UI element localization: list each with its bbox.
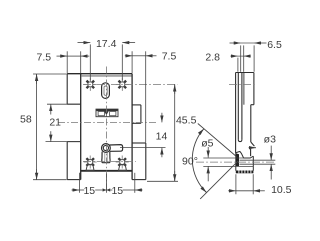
dimension 15 / 15 <box>72 173 143 193</box>
side right edge upper <box>253 73 255 105</box>
svg-text:14: 14 <box>156 131 168 143</box>
pivot axis center line <box>196 161 275 163</box>
clip spring filled bar <box>236 153 239 166</box>
hook nose diagonal <box>251 142 255 146</box>
dimension 58 <box>33 74 67 180</box>
top hole axis in side view <box>229 83 256 85</box>
keyhole slot (circle, arm, stem) <box>102 144 123 163</box>
dimension 6.5 <box>230 43 267 72</box>
side right edge step <box>251 104 254 106</box>
horizontal center line front view <box>58 122 158 124</box>
svg-text:90°: 90° <box>182 155 198 167</box>
phi3 hole side lines <box>240 160 276 164</box>
screw hole symbol top-right <box>116 78 129 91</box>
oval slot, top center <box>102 83 110 99</box>
upper radius line <box>198 124 237 157</box>
side top surface <box>236 72 254 74</box>
side left edge <box>235 73 237 153</box>
dimension phi5 <box>207 147 209 181</box>
top-left ear tab <box>67 74 81 105</box>
svg-text:10.5: 10.5 <box>271 184 292 196</box>
plate left edge <box>80 74 82 180</box>
right middle tab <box>132 105 141 123</box>
oval slot inner opening <box>104 86 107 95</box>
svg-text:ø3: ø3 <box>264 134 276 146</box>
dimension 7.5 right <box>125 51 157 142</box>
svg-text:7.5: 7.5 <box>162 50 177 62</box>
dimension 2.8 <box>230 45 250 71</box>
svg-text:15: 15 <box>83 185 95 197</box>
clip wavy top <box>236 152 254 159</box>
dimension 10.5 <box>228 174 265 194</box>
side slot right wall <box>241 73 243 140</box>
middle latch window <box>96 109 118 117</box>
pull direction arrow <box>249 147 256 149</box>
svg-text:2.8: 2.8 <box>205 51 220 63</box>
left foot trapezoid <box>86 165 94 171</box>
plate bottom edge (thick) <box>81 170 132 172</box>
plate right edge <box>131 74 133 180</box>
svg-text:6.5: 6.5 <box>267 39 282 51</box>
lower radius line <box>200 161 238 199</box>
dimension 17.4 <box>78 43 136 81</box>
side view: plate profile <box>236 73 255 157</box>
svg-text:17.4: 17.4 <box>96 38 117 50</box>
phi5 hole side lines <box>203 158 253 166</box>
bottom-left ear tab <box>67 142 81 180</box>
plate top lip line <box>81 75 131 77</box>
side right edge lower <box>250 105 252 142</box>
svg-text:58: 58 <box>20 113 32 125</box>
side inner fold line <box>243 73 245 105</box>
front view: mounting plate outline <box>67 74 132 180</box>
svg-text:45.5: 45.5 <box>176 114 197 126</box>
svg-text:ø5: ø5 <box>201 137 213 149</box>
svg-text:21: 21 <box>49 116 61 128</box>
screw hole symbol bottom-left <box>84 156 97 169</box>
bottom hole axis center line <box>83 160 136 162</box>
vertical center line front view <box>105 67 107 191</box>
dimension 21 <box>46 104 81 141</box>
side slot rounded bottom <box>238 140 242 142</box>
dimension 45.5 <box>147 84 178 181</box>
hook inner edge <box>250 149 252 156</box>
plate top edge <box>67 73 132 75</box>
screw hole symbol bottom-right <box>116 156 129 169</box>
arc bottom arrowhead <box>200 186 206 192</box>
screw hole symbol top-left <box>84 78 97 91</box>
90 degree swing arc <box>192 124 238 199</box>
keyhole stem inner lines <box>105 153 107 162</box>
foot left side <box>235 153 237 171</box>
DIN clip foot <box>236 152 254 171</box>
arc top arrowhead <box>198 129 204 135</box>
svg-text:15: 15 <box>111 185 123 197</box>
dimension 14 <box>120 113 166 158</box>
dimension 7.5 left <box>57 51 90 73</box>
foot right side <box>252 156 254 171</box>
bottom-right ear tab <box>132 143 146 180</box>
side slot left wall <box>237 73 239 140</box>
hatched rail band <box>236 171 254 174</box>
dimension phi3 <box>270 146 272 180</box>
top hole axis center line <box>83 83 178 85</box>
right foot trapezoid <box>119 165 127 171</box>
svg-text:7.5: 7.5 <box>36 51 51 63</box>
